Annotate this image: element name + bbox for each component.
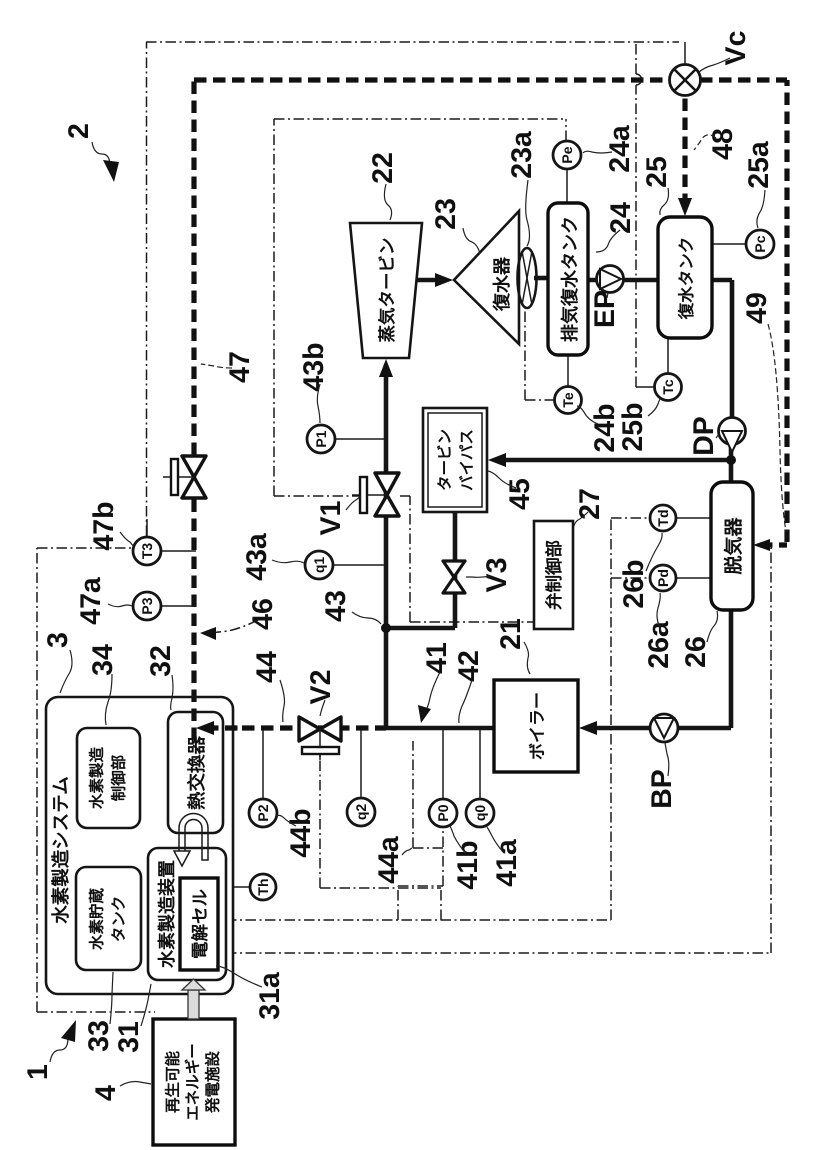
svg-text:再生可能: 再生可能 — [164, 1051, 182, 1114]
hydrogen production control unit 34 — [77, 728, 140, 828]
wire: turbine exhaust to condenser — [412, 278, 445, 283]
svg-text:EP: EP — [589, 290, 621, 328]
power feed arrow from facility 4 to electrolysis cell — [188, 990, 199, 1019]
wire: sensor bus 2 (portrait y=953) — [226, 952, 771, 954]
wire: turbine bypass return line (junction to bypass box) — [496, 458, 731, 463]
svg-text:蒸気タービン: 蒸気タービン — [377, 238, 397, 343]
svg-text:32: 32 — [145, 645, 177, 677]
svg-text:43: 43 — [320, 590, 352, 622]
wire: sensor bus 1 (portrait y=920) — [226, 919, 611, 921]
svg-text:42: 42 — [453, 650, 485, 682]
svg-text:タービン: タービン — [436, 429, 454, 491]
svg-text:復水器: 復水器 — [492, 256, 512, 312]
wire: Pe stub — [566, 169, 568, 204]
wire: deaerator to BP pump to boiler — [729, 610, 734, 728]
svg-text:P2: P2 — [255, 804, 271, 821]
wire: q2 stub — [360, 730, 362, 798]
wire: Td/Pd riser (portrait x=611) — [610, 518, 612, 920]
wire: steam line 47 (heavy dashed, portrait x=194) — [191, 80, 196, 740]
wire: T3 riser (portrait x=146) — [146, 42, 148, 536]
wire: P3 stub — [161, 605, 196, 607]
svg-text:2: 2 — [63, 123, 95, 139]
wire: T3 stubs — [161, 550, 196, 552]
wire: Th stub — [224, 886, 250, 888]
wire: Pc stub — [710, 243, 746, 245]
svg-text:41b: 41b — [452, 840, 484, 889]
sensor q2 — [347, 798, 375, 826]
svg-text:44: 44 — [251, 651, 283, 683]
svg-text:ボイラー: ボイラー — [528, 692, 547, 760]
wire: tank24 - EP - tank25 — [588, 278, 658, 283]
deaerator 26 — [711, 482, 753, 610]
wire: Tc spur — [636, 386, 655, 388]
wire: thin dash-dot riser near deaerator (portrait x=772) — [771, 547, 772, 549]
sensor Te — [555, 387, 582, 414]
svg-text:DP: DP — [688, 416, 720, 456]
sensor Th — [250, 874, 276, 900]
pump DP — [719, 418, 746, 445]
sensor Pc — [746, 230, 774, 258]
svg-text:47b: 47b — [88, 501, 120, 550]
turbine bypass box 45 (double border) — [423, 408, 487, 512]
wire: steam line 47 end inside heat exchanger (drawn above box) — [191, 698, 196, 740]
svg-text:P3: P3 — [139, 597, 155, 614]
wire: P1 stub — [335, 438, 384, 440]
electrolysis cell 31a — [180, 878, 218, 970]
svg-text:31: 31 — [113, 1021, 145, 1053]
svg-text:27: 27 — [574, 488, 606, 520]
junction node at DP / bypass return — [726, 455, 736, 465]
svg-text:47: 47 — [224, 351, 256, 383]
valve V1 (on line 43) — [375, 495, 399, 516]
svg-text:V1: V1 — [315, 500, 347, 535]
sensor q0 — [466, 799, 494, 827]
svg-text:47a: 47a — [75, 576, 107, 625]
svg-text:エネルギー: エネルギー — [184, 1043, 202, 1121]
valve control unit 27 — [534, 521, 573, 629]
exhaust condensate tank 24 — [548, 203, 588, 355]
renewable energy facility 4 — [153, 1019, 235, 1145]
wire: bypass branch with V3 (portrait y=628) — [386, 626, 455, 631]
svg-text:34: 34 — [87, 644, 119, 676]
wire: q0 stub — [479, 730, 481, 798]
svg-text:4: 4 — [90, 1085, 122, 1101]
sensor Tc — [655, 374, 682, 401]
svg-text:24: 24 — [605, 202, 637, 234]
svg-text:発電施設: 発電施設 — [204, 1051, 222, 1115]
svg-text:23: 23 — [430, 198, 462, 230]
svg-text:V3: V3 — [481, 558, 513, 593]
sensor P3 — [133, 592, 161, 620]
svg-text:q0: q0 — [472, 805, 488, 822]
wire: V1 to valve-control-unit 27 — [400, 495, 410, 497]
sensor P0 — [429, 799, 457, 827]
svg-text:q1: q1 — [311, 557, 327, 574]
svg-text:水素貯蔵: 水素貯蔵 — [88, 888, 106, 951]
wire: Td stub — [650, 517, 663, 519]
wire: Te stub — [567, 354, 569, 386]
condenser tube 23a (ellipse with cross) — [518, 248, 537, 308]
svg-text:水素製造装置: 水素製造装置 — [157, 860, 177, 968]
wire: Tc stub — [667, 337, 669, 373]
svg-text:Td: Td — [655, 509, 671, 526]
wire: Pd stub — [650, 577, 663, 579]
svg-text:熱交換器: 熱交換器 — [186, 736, 207, 811]
svg-text:電解セル: 電解セル — [190, 889, 210, 959]
wire: Vc branch into condensate tank 25 (heavy dashed, portrait x=685) — [682, 95, 687, 206]
sensor T3 — [133, 537, 161, 565]
svg-text:Pe: Pe — [559, 146, 575, 163]
wire: Tc riser (portrait x=636) with hop over steam line — [635, 85, 637, 387]
svg-text:制御部: 制御部 — [110, 754, 128, 801]
wire: P0 stub — [442, 730, 444, 798]
wire: main steam line 43 (boiler to turbine) — [386, 726, 494, 731]
svg-text:44a: 44a — [373, 835, 405, 884]
sensor P1 — [307, 425, 335, 453]
svg-text:45: 45 — [504, 478, 536, 510]
svg-text:水素製造: 水素製造 — [88, 747, 106, 810]
svg-text:バイパス: バイパス — [458, 429, 476, 491]
junction node at line 43 / bypass branch — [381, 623, 391, 633]
heat exchanger 32 — [168, 712, 223, 833]
wire: heat-exchanger sensor line 44a — [412, 741, 414, 848]
svg-text:25a: 25a — [743, 140, 775, 189]
wire: V2 control to sensor bus — [319, 754, 321, 888]
sensor Pe — [553, 141, 581, 169]
wire: DP to deaerator junction — [729, 444, 734, 482]
wire: steam line 44 end inside heat exchanger with arrow — [206, 725, 240, 730]
svg-text:弁制御部: 弁制御部 — [544, 540, 564, 610]
hydrogen production device 31 — [148, 848, 226, 980]
svg-text:Pc: Pc — [752, 235, 768, 252]
svg-text:43a: 43a — [241, 532, 273, 581]
svg-text:49: 49 — [741, 292, 773, 324]
svg-text:23a: 23a — [506, 130, 538, 179]
wire: tank25 to DP pump — [712, 278, 732, 283]
svg-text:44b: 44b — [285, 808, 317, 857]
wire: tank33 to device31 connector — [141, 912, 148, 914]
svg-text:Th: Th — [255, 878, 271, 895]
svg-text:タンク: タンク — [111, 896, 128, 943]
svg-text:V2: V2 — [305, 670, 337, 705]
wire: Pe to V1 control path (portrait x=274 rect) — [273, 119, 275, 496]
svg-text:復水タンク: 復水タンク — [677, 237, 696, 321]
svg-text:24a: 24a — [604, 124, 636, 173]
svg-text:26b: 26b — [618, 559, 650, 608]
svg-text:BP: BP — [646, 769, 678, 809]
hydrogen production system box 3 — [46, 697, 233, 994]
svg-text:25b: 25b — [617, 402, 649, 451]
svg-text:31a: 31a — [254, 971, 286, 1020]
valve on steam line 47 — [182, 477, 206, 498]
svg-text:q2: q2 — [353, 804, 369, 821]
boiler 21 — [494, 680, 578, 772]
svg-text:3: 3 — [42, 632, 74, 648]
svg-text:43b: 43b — [298, 342, 330, 391]
wire: cooling pipe 23a to Te (dash-dot) — [524, 305, 526, 400]
valve V2 (on line 44) — [299, 717, 320, 741]
sensor q1 — [305, 551, 333, 579]
sensor P2 — [249, 799, 277, 827]
wire: steam line 44 (heavy dashed, portrait y=728) — [204, 725, 386, 730]
wire: q1 stub — [333, 564, 384, 566]
svg-text:25: 25 — [641, 156, 673, 188]
wire: condenser to exhaust condensate tank 24 — [534, 276, 549, 281]
svg-text:Pd: Pd — [655, 569, 671, 587]
valve Vc (circle with X) — [670, 65, 701, 96]
svg-text:P0: P0 — [435, 804, 451, 821]
wire: heavy dashed top line to Vc (portrait y=80) — [194, 77, 670, 82]
svg-text:21: 21 — [495, 618, 527, 650]
condenser 23 — [454, 211, 519, 344]
svg-text:41: 41 — [421, 642, 453, 674]
svg-text:Tc: Tc — [660, 379, 676, 395]
svg-text:P1: P1 — [313, 430, 329, 447]
svg-text:46: 46 — [247, 598, 279, 630]
svg-text:脱気器: 脱気器 — [723, 517, 745, 575]
steam turbine 22 — [350, 223, 422, 358]
sensor Pd — [650, 565, 676, 591]
wire: control bus along top (portrait y=42) — [146, 41, 679, 43]
svg-text:Te: Te — [560, 392, 576, 408]
svg-text:22: 22 — [367, 152, 399, 184]
svg-text:33: 33 — [83, 1020, 115, 1052]
wire: system boundary 1 (dash-dot) — [36, 548, 38, 1012]
svg-text:41a: 41a — [491, 838, 523, 887]
wire: heavy dashed right line 49 (portrait x=787) — [784, 80, 789, 542]
condensate tank 25 — [658, 217, 712, 338]
svg-text:水素製造システム: 水素製造システム — [50, 776, 71, 923]
wire: drop to valve Vc — [684, 42, 686, 64]
svg-text:排気復水タンク: 排気復水タンク — [560, 216, 580, 342]
pump EP — [597, 266, 624, 293]
heat exchange loop (hollow U pipe with arrow) — [179, 814, 208, 861]
svg-text:48: 48 — [707, 128, 739, 160]
wire: P0 lower stub — [442, 828, 444, 886]
wire: heavy dashed into deaerator — [760, 542, 787, 547]
pump BP — [650, 714, 678, 742]
svg-text:1: 1 — [22, 1064, 54, 1080]
sensor Td — [650, 505, 676, 531]
valve V3 (on bypass branch) — [443, 577, 465, 593]
hydrogen storage tank 33 — [76, 867, 141, 970]
svg-text:T3: T3 — [139, 543, 155, 560]
wire: P2 stub — [262, 730, 264, 799]
